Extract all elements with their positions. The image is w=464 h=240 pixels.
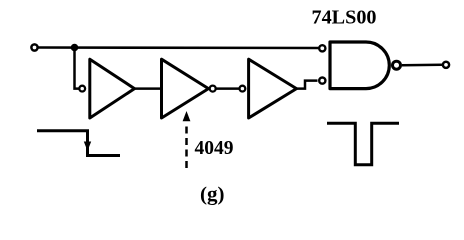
NAND gate U2 (74LS00) bbox=[330, 42, 389, 89]
inverter U1a (4049) bbox=[90, 59, 135, 118]
input terminal bbox=[31, 44, 37, 50]
inverter U1b output bubble bbox=[210, 86, 216, 92]
inverter U1c (4049) bbox=[249, 59, 297, 118]
wire: input to NAND top input bbox=[38, 46, 319, 49]
junction dot bbox=[71, 44, 79, 52]
inverter U1b (4049) bbox=[162, 59, 209, 118]
wire: U1c output step up to NAND bottom input bbox=[297, 81, 318, 89]
inverter U1a input bubble bbox=[79, 86, 85, 92]
wire: U1b output to U1c input bbox=[216, 87, 240, 90]
svg-text:74LS00: 74LS00 bbox=[312, 7, 377, 28]
caption (g) bbox=[200, 184, 225, 206]
dashed arrow head bbox=[183, 111, 191, 121]
label 4049 bbox=[195, 138, 234, 159]
label 74LS00 bbox=[312, 7, 377, 28]
output waveform: negative pulse bbox=[327, 123, 399, 165]
NAND bottom input bubble bbox=[319, 78, 325, 84]
NAND output bubble bbox=[393, 61, 401, 69]
dashed arrow pointing at inverter U1b bbox=[185, 122, 188, 168]
input waveform arrowhead (falling edge) bbox=[84, 142, 91, 152]
NAND top input bubble bbox=[319, 45, 325, 51]
wire: junction down to inverter U1a input bbox=[75, 48, 80, 89]
svg-text:4049: 4049 bbox=[195, 138, 234, 159]
svg-text:(g): (g) bbox=[200, 184, 225, 206]
inverter U1c input bubble bbox=[240, 86, 246, 92]
wire: NAND output to output terminal bbox=[402, 64, 442, 67]
output terminal bbox=[443, 62, 449, 68]
wire: U1a output to U1b input bbox=[135, 87, 162, 90]
input waveform: falling edge bbox=[37, 131, 120, 156]
